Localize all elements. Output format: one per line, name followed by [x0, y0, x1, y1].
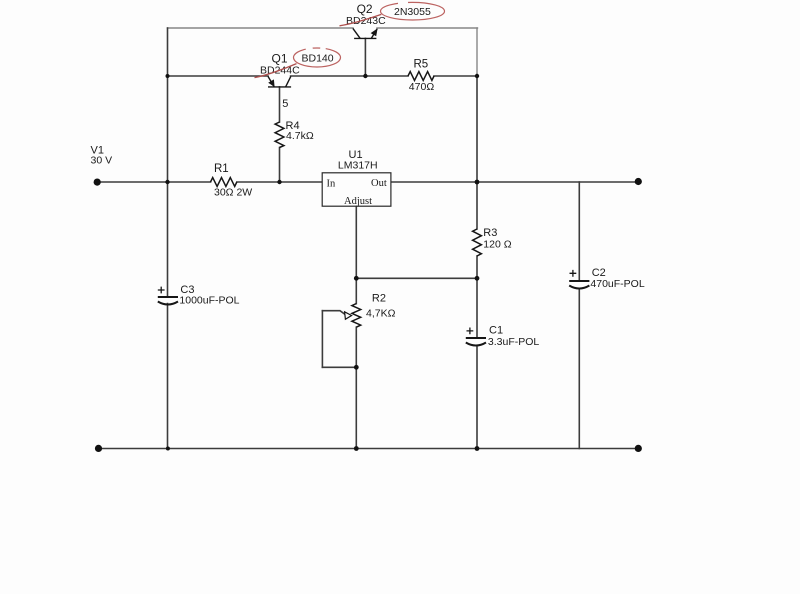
- terminal dot V1 plus: [94, 179, 101, 186]
- wire Q1 base to R4: [279, 87, 281, 122]
- svg-text:R3: R3: [483, 227, 497, 239]
- junction bottom rail right vertical: [475, 446, 480, 451]
- wire pot loop left vertical: [321, 311, 323, 368]
- wire right vertical top corner: [476, 28, 478, 76]
- junction adjust node: [354, 276, 359, 281]
- svg-text:Adjust: Adjust: [344, 196, 372, 207]
- junction out rail right vertical: [475, 180, 480, 185]
- junction pot bottom: [354, 365, 359, 370]
- svg-text:1000uF-POL: 1000uF-POL: [179, 295, 239, 307]
- svg-text:Q2: Q2: [357, 2, 373, 16]
- resistor R1: [211, 178, 237, 187]
- transistor Q2 emitter arrow: [371, 28, 378, 36]
- terminal dot V1 minus: [95, 445, 102, 452]
- wire second rail R5 to right vertical: [434, 75, 477, 77]
- capacitor C3 top plate: [158, 296, 178, 298]
- wire R2 bottom to bottom rail: [355, 327, 357, 448]
- svg-text:2N3055: 2N3055: [394, 6, 431, 18]
- svg-text:C1: C1: [489, 324, 503, 336]
- wire adjust horizontal to right vertical: [356, 277, 477, 279]
- svg-text:30Ω 2W: 30Ω 2W: [214, 186, 252, 198]
- gap tick on BD140 ellipse top left: [306, 48, 313, 49]
- transistor Q1 base bar: [268, 86, 291, 88]
- wire top rail right segment: [377, 27, 478, 29]
- gap tick on BD140 ellipse top right: [320, 47, 326, 50]
- op-amp regulator U1 box: [322, 173, 391, 206]
- svg-text:470Ω: 470Ω: [409, 81, 435, 93]
- wire top rail left segment: [168, 27, 354, 29]
- svg-text:LM317H: LM317H: [338, 159, 378, 171]
- red ellipse around 2N3055: [381, 2, 445, 20]
- red tail through BD243C: [340, 14, 382, 25]
- svg-text:In: In: [327, 179, 336, 190]
- svg-text:R5: R5: [414, 58, 429, 70]
- wire C2 branch lower: [578, 290, 580, 449]
- wire left vertical lower: [167, 304, 169, 449]
- transistor Q2 emitter diagonal: [371, 29, 377, 39]
- transistor Q2 collector diagonal: [353, 28, 360, 38]
- potentiometer wiper arrow: [345, 312, 352, 320]
- transistor Q1 collector diagonal: [286, 76, 291, 87]
- wire C2 branch upper: [578, 182, 580, 280]
- resistor R4: [275, 122, 284, 148]
- wire R4 to main rail: [279, 148, 281, 183]
- wire U1 Adjust lead: [355, 206, 357, 278]
- transistor Q2 base bar: [354, 37, 376, 39]
- junction Q2 base second rail: [363, 74, 367, 78]
- resistor R2 potentiometer: [352, 304, 361, 328]
- wire main rail R1 to U1 In: [237, 181, 322, 183]
- svg-text:4.7kΩ: 4.7kΩ: [286, 130, 314, 142]
- svg-text:Out: Out: [371, 178, 387, 189]
- wire adjust to R2 top: [355, 278, 357, 303]
- terminal dot output minus: [635, 445, 642, 452]
- wire bottom rail: [97, 448, 638, 450]
- svg-text:BD140: BD140: [302, 52, 334, 64]
- wire right vertical top to R3: [476, 76, 478, 229]
- junction adjust right vertical: [475, 276, 480, 281]
- capacitor C1 top plate: [466, 337, 486, 339]
- wire pot wiper horizontal: [322, 311, 344, 315]
- wire right vertical C1 to bottom rail: [476, 347, 478, 449]
- wire main rail V1 to R1: [97, 181, 211, 183]
- capacitor C3 bottom plate: [158, 302, 178, 305]
- transistor Q1 emitter diagonal: [268, 76, 274, 87]
- junction R5 right: [475, 74, 479, 78]
- wire right vertical R3 to C1: [476, 256, 478, 338]
- svg-text:R2: R2: [372, 292, 386, 304]
- junction bottom rail left vertical: [166, 447, 170, 451]
- capacitor C1 bottom plate: [466, 343, 486, 346]
- svg-text:Q1: Q1: [272, 51, 288, 65]
- svg-text:470uF-POL: 470uF-POL: [590, 278, 644, 290]
- wire main rail U1 Out to right terminal: [391, 181, 638, 183]
- svg-text:4,7KΩ: 4,7KΩ: [366, 308, 396, 320]
- gap tick on 2N3055 ellipse top: [398, 1, 408, 4]
- resistor R5: [408, 72, 434, 81]
- wire second rail left of Q1: [168, 75, 269, 77]
- red tail through BD244C: [255, 64, 297, 78]
- capacitor C2 top plate: [569, 280, 589, 282]
- svg-text:30 V: 30 V: [91, 155, 113, 167]
- capacitor C2 plus sign: [570, 270, 577, 277]
- junction bottom rail pot branch: [354, 446, 359, 451]
- capacitor C1 plus sign: [467, 328, 474, 335]
- wire Q2 base lead: [364, 38, 366, 76]
- svg-text:BD243C: BD243C: [346, 15, 386, 27]
- terminal dot output plus: [635, 178, 642, 185]
- svg-text:5: 5: [282, 98, 288, 110]
- wire left vertical upper: [167, 28, 169, 296]
- svg-text:120 Ω: 120 Ω: [483, 239, 511, 251]
- transistor Q1 emitter arrow: [268, 79, 274, 87]
- junction R4 main rail: [277, 180, 281, 184]
- capacitor C3 plus sign: [158, 287, 165, 294]
- junction left vertical main rail: [165, 180, 169, 184]
- red ellipse around BD140: [294, 48, 341, 67]
- capacitor C2 bottom plate: [569, 286, 589, 289]
- svg-text:R1: R1: [214, 163, 229, 175]
- resistor R3: [473, 229, 482, 256]
- wire second rail Q1 to R5: [291, 75, 408, 77]
- svg-text:3.3uF-POL: 3.3uF-POL: [488, 336, 540, 348]
- junction second rail left: [166, 74, 170, 78]
- wire pot loop bottom: [322, 366, 356, 368]
